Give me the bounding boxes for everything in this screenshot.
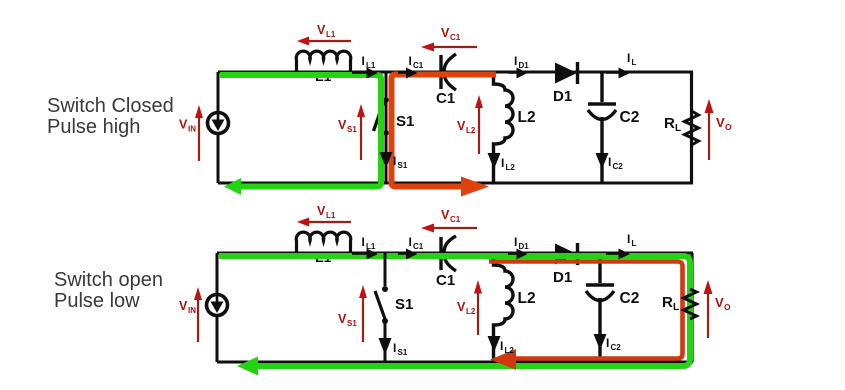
label IL2 c1 — [501, 156, 515, 172]
green current path c2 (top, right vertical, bottom) — [219, 256, 690, 366]
label VL1 c2 — [317, 204, 336, 220]
wire c2 bottom (217,362)-(693,362) — [217, 361, 693, 364]
svg-text:S1: S1 — [398, 348, 408, 357]
label VL1 c1 — [317, 23, 336, 39]
inductor L1 c2 — [296, 232, 351, 255]
caption circuit 2: Switch open / Pulse low — [54, 269, 163, 312]
arrow VC1 c2 (red, left) — [421, 224, 477, 233]
arrow VL2 c1 (red, up) — [475, 95, 483, 154]
capacitor C2 c1 — [588, 72, 616, 183]
svg-text:L2: L2 — [505, 346, 515, 355]
svg-text:I: I — [393, 341, 396, 355]
svg-text:S1: S1 — [395, 296, 413, 313]
svg-text:L2: L2 — [466, 307, 476, 316]
label VL2 c2 — [457, 300, 476, 316]
svg-text:I: I — [627, 232, 630, 246]
svg-text:V: V — [457, 300, 466, 314]
label VL2 c1 — [457, 119, 476, 135]
svg-text:C1: C1 — [436, 90, 455, 107]
label RL c1 — [664, 115, 681, 134]
inductor L2 c2 — [494, 253, 514, 362]
svg-text:I: I — [606, 336, 609, 350]
svg-text:S1: S1 — [347, 319, 357, 328]
label VS1 c2 — [338, 312, 357, 328]
svg-text:L1: L1 — [366, 242, 376, 251]
label IL c2 — [627, 232, 637, 248]
svg-text:I: I — [608, 155, 611, 169]
svg-text:V: V — [338, 312, 347, 326]
svg-text:O: O — [724, 302, 731, 312]
svg-text:I: I — [627, 51, 630, 65]
svg-text:V: V — [179, 118, 188, 132]
inductor L2 c1 — [494, 72, 514, 183]
label IL c1 — [627, 51, 637, 67]
svg-text:Switch Closed: Switch Closed — [47, 95, 174, 117]
svg-text:R: R — [664, 115, 675, 132]
wire c1 bottom (218,183)-(693,183) — [218, 182, 693, 185]
svg-text:Switch open: Switch open — [54, 269, 163, 291]
svg-text:V: V — [317, 23, 326, 37]
svg-text:C2: C2 — [620, 109, 640, 126]
svg-text:V: V — [338, 118, 347, 132]
label VC1 c1 — [441, 26, 461, 42]
wire c2 top (217,253)-(693,253) — [217, 252, 693, 255]
red current path c2: arrow head (left) — [490, 349, 516, 370]
label ID1 c1 — [514, 54, 529, 70]
arrow VIN c1 (red, up) — [195, 105, 203, 161]
label VIN c1 — [179, 118, 196, 134]
arrow VS1 c2 (red, up) — [359, 285, 367, 342]
svg-text:L: L — [632, 239, 637, 248]
svg-text:V: V — [179, 299, 188, 313]
label IL2 c2 — [500, 339, 514, 355]
label VS1 c1 — [338, 118, 357, 134]
svg-text:V: V — [317, 204, 326, 218]
svg-text:V: V — [716, 115, 725, 130]
svg-text:C1: C1 — [450, 215, 461, 224]
svg-text:IN: IN — [188, 306, 196, 315]
source VIN c2: circle with inner arrow — [207, 295, 228, 316]
svg-text:O: O — [725, 122, 732, 132]
svg-text:C1: C1 — [450, 33, 461, 42]
arrow VL1 c2 (red, left) — [297, 218, 351, 227]
label VIN c2 — [179, 299, 196, 315]
arrow ID1 c1 (black, right) — [508, 68, 528, 79]
arrow IL1 c1 (black, right) — [352, 68, 378, 79]
svg-text:D1: D1 — [553, 269, 572, 286]
arrow IC2 c1 (black, down) — [596, 153, 609, 169]
svg-text:C2: C2 — [613, 162, 624, 171]
svg-text:C1: C1 — [413, 242, 424, 251]
label VO c2 — [715, 295, 731, 312]
svg-text:C2: C2 — [620, 290, 640, 307]
svg-text:D1: D1 — [519, 242, 530, 251]
svg-text:L1: L1 — [326, 30, 336, 39]
label IC1 c1 — [409, 54, 424, 70]
svg-text:L2: L2 — [506, 163, 516, 172]
svg-text:L2: L2 — [466, 126, 476, 135]
red current path c2 (top, right vertical, bottom) — [489, 262, 683, 359]
resistor RL c1 zigzag — [685, 111, 699, 145]
svg-text:I: I — [501, 156, 504, 170]
svg-text:I: I — [409, 235, 412, 249]
label IC2 c1 — [608, 155, 623, 171]
svg-text:V: V — [441, 208, 450, 222]
wire c1 left (218,72)-(218,183) — [217, 72, 220, 183]
label IC1 c2 — [409, 235, 424, 251]
inductor L1 c1 — [296, 51, 351, 74]
arrow VO c2 (red, up) — [704, 280, 713, 338]
svg-text:S1: S1 — [396, 113, 414, 130]
svg-text:IN: IN — [188, 125, 196, 134]
arrow VIN c2 (red, up) — [194, 287, 202, 342]
svg-text:L: L — [632, 58, 637, 67]
svg-text:D1: D1 — [519, 61, 530, 70]
resistor RL c2 zigzag (drawn over green) — [684, 289, 697, 319]
arrow IS1 c1 (black, down, on switch) — [380, 152, 393, 168]
green current path c1: arrow head (left) — [224, 178, 241, 195]
svg-text:V: V — [441, 26, 450, 40]
label IL1 c1 — [362, 54, 376, 70]
orange current path c1 (top through C1, switch vertical, bottom) — [392, 75, 497, 187]
svg-text:C2: C2 — [611, 343, 622, 352]
svg-text:L2: L2 — [518, 290, 536, 307]
arrow VS1 c1 (red, up) — [357, 104, 365, 160]
label IC2 c2 — [606, 336, 621, 352]
label IL1 c2 — [362, 235, 376, 251]
wire c2 left (217,253)-(217,362) — [216, 253, 219, 362]
arrow IC2 c2 (black, down) — [594, 334, 607, 350]
wire c2 right (693,253)-(693,362) — [690, 253, 693, 362]
green current path c1 (top, switch vertical, bottom) — [220, 75, 381, 187]
svg-text:I: I — [362, 235, 365, 249]
svg-text:Pulse high: Pulse high — [47, 116, 140, 138]
source VIN c1: circle with inner arrow — [208, 113, 229, 134]
green current path c2: arrow head (left) — [237, 357, 258, 376]
svg-text:S1: S1 — [398, 161, 408, 170]
svg-text:I: I — [409, 54, 412, 68]
arrow VC1 c1 (red, left) — [421, 43, 477, 52]
caption circuit 1: Switch Closed / Pulse high — [47, 95, 174, 138]
diode D1 c2 — [555, 243, 578, 265]
arrow VO c1 (red, up) — [705, 99, 714, 160]
svg-text:I: I — [514, 54, 517, 68]
svg-text:L1: L1 — [366, 61, 376, 70]
label RL c2 — [662, 294, 679, 313]
svg-text:C1: C1 — [436, 272, 455, 289]
switch S1 c2 (open) — [375, 253, 388, 362]
arrow IL c2 (black, right) — [606, 249, 630, 260]
svg-text:L1: L1 — [326, 211, 336, 220]
svg-text:V: V — [457, 119, 466, 133]
svg-text:D1: D1 — [553, 88, 572, 105]
capacitor C2 c2 — [586, 253, 614, 362]
svg-text:I: I — [514, 235, 517, 249]
arrow ID1 c2 (black, right) — [508, 249, 528, 260]
diode D1 c1 — [555, 62, 578, 84]
arrow IL c1 (black, right) — [606, 68, 630, 79]
arrow VL1 c1 (red, left) — [297, 37, 351, 46]
svg-text:I: I — [393, 154, 396, 168]
svg-text:L: L — [675, 123, 681, 134]
svg-text:S1: S1 — [347, 125, 357, 134]
label IS1 c2 — [393, 341, 408, 357]
capacitor C1 c1 plates — [441, 54, 456, 90]
wire c1 top (218,72)-(693,72) — [218, 71, 693, 74]
capacitor C1 c2 plates — [441, 236, 456, 271]
svg-text:L2: L2 — [518, 109, 536, 126]
label VO c1 — [716, 115, 732, 132]
orange current path c1: arrow head (right) — [461, 177, 489, 197]
arrow IL1 c2 (black, right) — [352, 249, 378, 260]
label ID1 c2 — [514, 235, 529, 251]
svg-text:I: I — [500, 339, 503, 353]
label IS1 c1 — [393, 154, 408, 170]
svg-text:L: L — [673, 302, 679, 313]
arrow IS1 c2 (black, down) — [379, 338, 392, 355]
arrow IL2 c2 (black, down) — [488, 336, 501, 352]
switch S1 c1 (closed) — [374, 72, 389, 183]
wire c1 right (693,72)-(693,183) — [690, 72, 693, 183]
svg-text:R: R — [662, 294, 673, 311]
svg-text:I: I — [362, 54, 365, 68]
label VC1 c2 — [441, 208, 461, 224]
arrow IC1 c2 (black, right) — [398, 249, 418, 260]
svg-text:Pulse low: Pulse low — [54, 290, 140, 312]
arrow IC1 c1 (black, right) — [398, 68, 418, 79]
svg-text:C1: C1 — [413, 61, 424, 70]
arrow IL2 c1 (black, down) — [488, 153, 501, 169]
svg-text:V: V — [715, 295, 724, 310]
arrow VL2 c2 (red, up) — [474, 280, 482, 335]
